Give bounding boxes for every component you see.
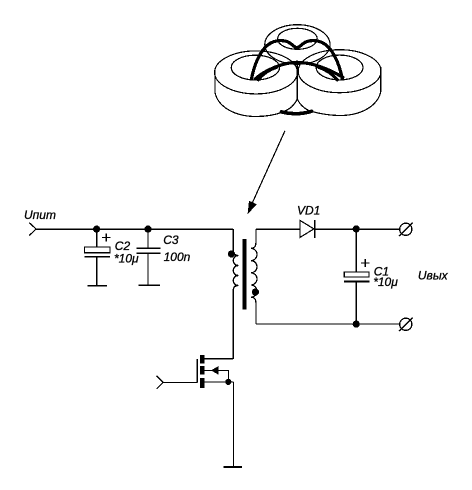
capacitor C3 common bar — [138, 284, 159, 286]
capacitor C3 bottom lead — [147, 253, 149, 285]
output terminal bottom circle — [400, 318, 412, 330]
toroid illustration: top core outer ellipse — [265, 25, 330, 65]
capacitor C2 plus sign — [102, 233, 110, 241]
transformer T1 primary polarity dot — [228, 250, 235, 257]
node: junction at C1 bottom — [353, 321, 360, 328]
capacitor C2 top lead — [96, 229, 98, 247]
node: junction at C1 top — [353, 225, 360, 232]
toroid illustration: winding right hook — [319, 67, 338, 79]
node: junction at C3 — [144, 226, 151, 233]
capacitor C1 top lead — [355, 229, 357, 272]
diode VD1 triangle — [300, 220, 314, 237]
toroid illustration: winding bottom pass bar — [281, 111, 311, 113]
capacitor C3 top lead — [147, 229, 149, 248]
capacitor C2 bottom lead — [96, 257, 98, 286]
wire: input rail to transformer primary — [36, 228, 233, 230]
MOSFET Q1 source bar — [200, 378, 204, 388]
pointer arrow head — [248, 201, 257, 215]
toroid illustration: left core inner hole ellipse — [231, 55, 279, 80]
toroid illustration: winding left hook — [258, 67, 276, 79]
output terminal top circle — [400, 223, 412, 235]
input terminal chevron Uпит — [29, 223, 36, 236]
toroid illustration: top core inner hole ellipse — [278, 28, 318, 49]
MOSFET Q1 body diode arrow — [211, 366, 218, 374]
svg-text:100n: 100n — [164, 250, 191, 264]
gate terminal chevron — [157, 376, 164, 389]
node: source-body junction — [225, 379, 231, 385]
toroid illustration: left core outer ellipse — [215, 51, 298, 94]
capacitor C1 plus sign — [361, 259, 369, 267]
MOSFET Q1 source wire — [204, 381, 233, 383]
MOSFET Q1 gate wire — [163, 381, 197, 383]
toroid illustration: seam split right curve — [297, 99, 311, 111]
capacitor C2 negative plate — [85, 256, 111, 258]
transformer T1 secondary bottom lead — [251, 297, 256, 324]
toroid illustration: left core wall bottom arc — [215, 93, 284, 117]
capacitor C2 common bar — [87, 285, 107, 287]
transformer T1 secondary polarity dot — [252, 288, 259, 295]
capacitor C1 negative plate — [344, 280, 370, 282]
transformer T1 primary bottom lead — [233, 286, 238, 359]
capacitor C1 bottom lead — [355, 281, 357, 324]
transformer T1 secondary top lead — [251, 229, 256, 249]
diode VD1 cathode bar — [314, 220, 316, 238]
node: junction at C2 — [93, 226, 100, 233]
transformer T1 core bar — [242, 239, 246, 310]
ground bar — [224, 466, 242, 468]
svg-text:*10μ: *10μ — [373, 275, 398, 289]
transformer T1 primary top lead — [233, 229, 238, 256]
capacitor C3 plate 1 — [136, 247, 160, 249]
toroid illustration: right core right wall edge — [380, 67, 382, 92]
svg-text:Uвых: Uвых — [418, 269, 449, 283]
svg-text:*10μ: *10μ — [114, 252, 139, 266]
output terminal bottom slash — [399, 318, 412, 332]
svg-text:C3: C3 — [163, 233, 179, 247]
wire: diode to output junction — [315, 228, 400, 230]
capacitor C3 plate 2 — [136, 252, 160, 254]
transformer T1 primary winding — [233, 256, 238, 286]
toroid illustration: left core left wall edge — [214, 68, 216, 93]
pointer arrow shaft — [253, 131, 286, 203]
MOSFET Q1 gate line — [196, 359, 198, 383]
MOSFET Q1 drain bar — [200, 355, 204, 363]
svg-text:Uпит: Uпит — [24, 208, 56, 222]
MOSFET Q1 drain wire — [204, 358, 233, 360]
MOSFET Q1 body bar — [200, 366, 204, 375]
transformer T1 secondary winding — [251, 248, 257, 297]
MOSFET Q1 body wire — [204, 370, 228, 382]
wire: secondary top to diode — [256, 228, 300, 230]
output terminal top slash — [399, 223, 412, 237]
toroid illustration: seam split left curve — [284, 99, 298, 112]
toroid illustration: right core inner hole ellipse — [316, 55, 363, 80]
svg-text:VD1: VD1 — [297, 204, 320, 218]
wire: bottom rail secondary to output — [256, 323, 400, 325]
toroid illustration: thick winding big arch — [252, 41, 343, 79]
toroid illustration: thick winding flat arc — [255, 62, 343, 79]
wire: source to ground — [233, 382, 235, 468]
capacitor C2 positive plate — [85, 247, 111, 253]
capacitor C1 positive plate — [344, 272, 369, 277]
toroid illustration: center seam line — [296, 62, 298, 100]
toroid illustration: right core outer ellipse — [298, 50, 381, 93]
toroid illustration: right core wall bottom arc — [311, 92, 381, 116]
